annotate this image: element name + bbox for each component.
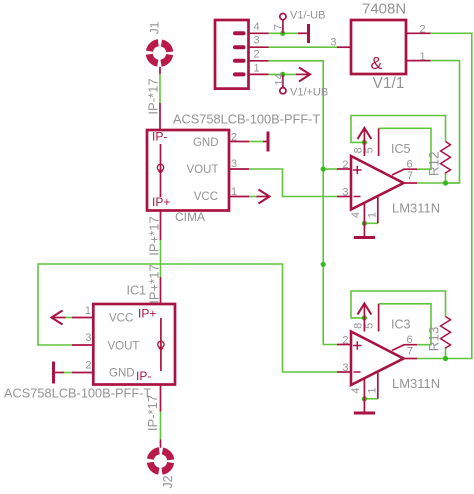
svg-text:1: 1 bbox=[231, 186, 237, 198]
svg-text:LM311N: LM311N bbox=[392, 376, 440, 391]
svg-text:1: 1 bbox=[85, 305, 91, 317]
svg-text:4: 4 bbox=[350, 212, 362, 218]
svg-text:3: 3 bbox=[231, 158, 237, 170]
svg-text:LM311N: LM311N bbox=[392, 201, 440, 216]
svg-text:5: 5 bbox=[363, 147, 375, 153]
svg-text:CIMA: CIMA bbox=[175, 210, 205, 224]
svg-text:&: & bbox=[371, 53, 383, 73]
svg-text:2: 2 bbox=[85, 360, 91, 372]
svg-text:2: 2 bbox=[420, 24, 426, 36]
svg-text:3: 3 bbox=[254, 35, 260, 47]
svg-text:1: 1 bbox=[367, 212, 379, 218]
svg-text:7408N: 7408N bbox=[362, 1, 406, 18]
svg-text:7: 7 bbox=[407, 170, 413, 182]
svg-text:VOUT: VOUT bbox=[187, 164, 219, 176]
svg-text:2: 2 bbox=[342, 159, 348, 171]
svg-text:GND: GND bbox=[109, 368, 135, 380]
svg-text:V1/-UB: V1/-UB bbox=[290, 10, 325, 22]
svg-text:3: 3 bbox=[330, 37, 336, 49]
svg-text:R12: R12 bbox=[427, 151, 442, 176]
svg-text:IP-*17: IP-*17 bbox=[145, 395, 160, 431]
svg-text:1: 1 bbox=[367, 387, 379, 393]
svg-text:ACS758LCB-100B-PFF-T: ACS758LCB-100B-PFF-T bbox=[173, 112, 320, 127]
svg-text:2: 2 bbox=[342, 335, 348, 347]
svg-text:GND: GND bbox=[193, 137, 219, 149]
svg-text:6: 6 bbox=[407, 159, 413, 171]
svg-text:14: 14 bbox=[274, 73, 286, 85]
svg-text:5: 5 bbox=[363, 323, 375, 329]
svg-text:VCC: VCC bbox=[109, 313, 133, 325]
svg-text:IP-*17: IP-*17 bbox=[146, 78, 161, 114]
svg-text:4: 4 bbox=[350, 387, 362, 393]
svg-text:IP+*17: IP+*17 bbox=[147, 216, 162, 255]
svg-text:IC5: IC5 bbox=[391, 142, 411, 156]
svg-text:R13: R13 bbox=[427, 327, 442, 352]
svg-text:V1/1: V1/1 bbox=[373, 75, 405, 92]
svg-text:7: 7 bbox=[273, 24, 285, 30]
svg-text:4: 4 bbox=[254, 21, 260, 33]
svg-text:6: 6 bbox=[407, 334, 413, 346]
svg-text:1: 1 bbox=[420, 51, 426, 63]
svg-text:2: 2 bbox=[231, 132, 237, 144]
svg-text:ACS758LCB-100B-PFF-T: ACS758LCB-100B-PFF-T bbox=[4, 386, 151, 401]
svg-text:2: 2 bbox=[254, 49, 260, 61]
svg-text:VCC: VCC bbox=[194, 191, 218, 203]
svg-text:V1/+UB: V1/+UB bbox=[290, 87, 328, 99]
svg-text:1: 1 bbox=[254, 63, 260, 75]
svg-text:VOUT: VOUT bbox=[108, 341, 140, 353]
svg-text:IP+*17: IP+*17 bbox=[147, 264, 162, 303]
svg-text:IP-: IP- bbox=[136, 369, 151, 383]
svg-text:7: 7 bbox=[407, 346, 413, 358]
svg-text:IP+: IP+ bbox=[152, 195, 170, 209]
svg-text:IC1: IC1 bbox=[127, 284, 147, 298]
svg-text:J2: J2 bbox=[161, 475, 175, 488]
svg-text:IP-: IP- bbox=[152, 130, 167, 144]
svg-text:J1: J1 bbox=[148, 21, 162, 34]
svg-text:IP+: IP+ bbox=[138, 307, 156, 321]
svg-text:3: 3 bbox=[342, 187, 348, 199]
svg-text:3: 3 bbox=[85, 332, 91, 344]
svg-text:IC3: IC3 bbox=[391, 318, 411, 332]
svg-text:3: 3 bbox=[342, 362, 348, 374]
